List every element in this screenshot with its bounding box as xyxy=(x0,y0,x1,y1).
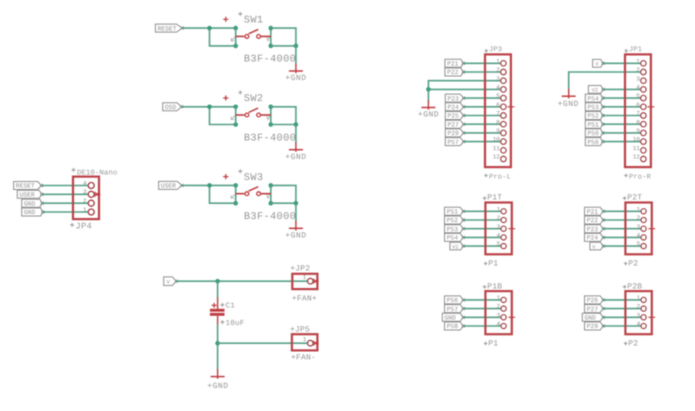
svg-text:3: 3 xyxy=(83,189,87,196)
net flag P53 at P1T pin 3 xyxy=(445,225,465,233)
svg-text:GND: GND xyxy=(24,200,36,207)
wire P1T pin 3 to P53 xyxy=(463,228,500,230)
svg-text:1: 1 xyxy=(637,295,641,302)
wire SW2 right pins tie xyxy=(270,107,272,125)
svg-text:P27: P27 xyxy=(587,306,599,313)
svg-text:4: 4 xyxy=(637,321,641,328)
power flag V (fan supply) xyxy=(164,277,178,286)
svg-text:4: 4 xyxy=(497,321,501,328)
svg-text:4: 4 xyxy=(497,232,501,239)
net flag GND at JP4 pin 2 xyxy=(22,199,44,207)
svg-text:5: 5 xyxy=(496,93,500,100)
net flag USER xyxy=(159,181,184,189)
svg-text:P21: P21 xyxy=(587,209,599,216)
pin numbers JP1 1-12 xyxy=(633,58,641,161)
wire SW2 right loop bottom xyxy=(271,124,296,126)
origin cross JP3 (red) xyxy=(508,103,515,110)
svg-text:P2: P2 xyxy=(628,260,638,269)
svg-text:P58: P58 xyxy=(447,323,459,330)
net flag P58 at P1B pin 4 xyxy=(445,322,465,330)
junction SW1 pin 2 xyxy=(269,26,274,31)
label JP3 xyxy=(489,46,502,54)
svg-text:12: 12 xyxy=(633,154,641,161)
svg-text:+JP5: +JP5 xyxy=(290,326,310,335)
origin cross C1 text xyxy=(220,303,224,307)
wire SW3 right pins tie xyxy=(270,185,272,203)
net flag P52 at P1T pin 2 xyxy=(445,216,465,224)
wire JP1 pin 8 to P51 xyxy=(603,123,640,125)
net flag P29 at P2B pin 4 xyxy=(585,322,605,330)
svg-text:RESET: RESET xyxy=(158,25,177,32)
svg-text:3: 3 xyxy=(637,223,641,230)
wire net USER to SW3 top pins xyxy=(182,184,236,186)
net flag USER at JP4 pin 3 xyxy=(17,190,43,198)
label C1 xyxy=(226,302,236,311)
wire SW2 to ground xyxy=(295,125,297,143)
value B3F-4000 of SW1 xyxy=(244,54,296,66)
label SW2 xyxy=(244,93,264,105)
junction C1 / FAN- xyxy=(215,341,220,346)
svg-text:1: 1 xyxy=(303,274,307,281)
wire P2T pin 1 to P21 xyxy=(603,210,640,212)
wire JP3 pin 9 to P29 xyxy=(464,132,501,134)
svg-text:3: 3 xyxy=(497,223,501,230)
svg-text:+GND: +GND xyxy=(285,74,306,83)
pin numbers P2T xyxy=(637,206,641,248)
wire SW1 right loop bottom xyxy=(271,45,296,47)
wire SW3 right loop top xyxy=(271,185,296,203)
svg-text:RESET: RESET xyxy=(16,183,35,190)
origin cross P1T text xyxy=(483,196,487,200)
wire P2B pin 3 to GND xyxy=(603,316,640,318)
pin numbers P1T xyxy=(497,206,501,248)
svg-text:4: 4 xyxy=(496,84,500,91)
pin numbers P1B xyxy=(497,295,501,328)
svg-text:GND: GND xyxy=(585,315,597,322)
wire net RESET loop to SW1 bottom pin xyxy=(210,28,236,46)
origin cross P1B text xyxy=(483,285,487,289)
origin cross DE10-Nano text xyxy=(72,168,76,172)
wire JP1 pin 7 to P52 xyxy=(603,115,640,117)
wire P1T pin 4 to P54 xyxy=(463,236,500,238)
wire JP1 pin 9 to P50 xyxy=(603,132,640,134)
svg-text:12: 12 xyxy=(493,154,501,161)
wire P1T pin 1 to P51 xyxy=(463,210,500,212)
svg-text:OSD: OSD xyxy=(165,104,177,111)
net flag P24 at JP3 pin 6 xyxy=(445,103,465,111)
value P1 of P1B xyxy=(488,340,498,349)
svg-text:P25: P25 xyxy=(448,113,460,120)
svg-text:P54: P54 xyxy=(588,95,600,102)
svg-text:P53: P53 xyxy=(588,104,600,111)
wire SW2 left pins tie xyxy=(235,107,237,125)
ground GND left of JP3 xyxy=(418,100,439,120)
ground GND below SW1 xyxy=(285,64,306,84)
connector JP2 FAN+ xyxy=(292,274,318,289)
label FAN- xyxy=(291,354,316,363)
svg-text:1: 1 xyxy=(496,58,500,65)
junction SW2 pin 1 xyxy=(233,105,238,110)
origin cross 10uF text xyxy=(220,320,224,324)
svg-text:3: 3 xyxy=(637,312,641,319)
wire P1T pin 2 to P52 xyxy=(463,219,500,221)
wire net OSD to SW2 top pins xyxy=(182,106,236,108)
net flag P23 at P2T pin 3 xyxy=(585,225,605,233)
svg-text:GND: GND xyxy=(24,209,36,216)
connector JP4 DE10-Nano header xyxy=(73,177,99,220)
wire SW3 right loop bottom xyxy=(271,202,296,204)
origin cross SW3 (red) xyxy=(223,174,228,179)
svg-text:7: 7 xyxy=(496,110,500,117)
svg-text:USER: USER xyxy=(161,183,176,190)
svg-text:2: 2 xyxy=(496,67,500,74)
wire JP4 pin 2 to GND xyxy=(42,202,87,204)
junction SW1 pin 1 xyxy=(233,26,238,31)
svg-text:SW2: SW2 xyxy=(244,93,264,105)
svg-text:+GND: +GND xyxy=(207,382,228,391)
svg-text:1: 1 xyxy=(303,336,307,343)
junction SW3 pin 2 xyxy=(269,183,274,188)
svg-text:10: 10 xyxy=(493,136,501,143)
connector P1T header xyxy=(485,203,511,255)
junction SW2 pin 2 xyxy=(269,105,274,110)
svg-text:P1B: P1B xyxy=(487,282,502,291)
svg-text:JP4: JP4 xyxy=(75,222,92,232)
wire JP3 pin 3 to GND xyxy=(428,81,500,90)
svg-text:P52: P52 xyxy=(588,113,600,120)
svg-text:+GND: +GND xyxy=(285,232,306,241)
junction net OSD xyxy=(207,105,212,110)
wire JP3 pin 4 to GND xyxy=(428,88,500,90)
svg-text:P26: P26 xyxy=(587,297,599,304)
net flag P22 at P2T pin 2 xyxy=(585,216,605,224)
svg-text:USER: USER xyxy=(20,192,35,199)
pin numbers P2B xyxy=(637,295,641,328)
label SW3 xyxy=(244,172,264,184)
pin numbers JP3 1-12 xyxy=(493,58,501,161)
svg-text:3: 3 xyxy=(496,75,500,82)
wire P2B pin 4 to P29 xyxy=(603,325,640,327)
svg-text:+GND: +GND xyxy=(285,153,306,162)
net flag P27 at P2B pin 2 xyxy=(585,305,605,313)
wire net RESET to SW1 top pins xyxy=(182,27,236,29)
origin cross SW1 name text xyxy=(238,12,242,16)
svg-text:P51: P51 xyxy=(588,121,600,128)
wire P2T pin 3 to P23 xyxy=(603,228,640,230)
svg-text:3: 3 xyxy=(636,75,640,82)
origin cross Pro-R text xyxy=(624,174,628,178)
svg-text:P1: P1 xyxy=(488,260,498,269)
svg-text:V2: V2 xyxy=(452,244,458,250)
wire JP1 pin 1 to V xyxy=(603,62,640,64)
junction JP3 GND net xyxy=(426,87,431,92)
svg-text:+FAN-: +FAN- xyxy=(291,354,316,363)
label P1B xyxy=(487,282,502,291)
wire SW1 right loop top xyxy=(271,28,296,46)
junction SW2 pin 4 xyxy=(269,122,274,127)
origin cross P2 text xyxy=(624,342,628,346)
net flag P51 at JP1 pin 8 xyxy=(585,120,604,128)
net flag GND at P2B pin 3 xyxy=(582,313,604,321)
wire net USER loop to SW3 bottom pin xyxy=(210,185,236,203)
svg-text:11: 11 xyxy=(493,145,501,152)
power flag V at JP1 pin 1 xyxy=(593,59,605,67)
net flag P21 at JP3 pin 1 xyxy=(445,59,465,67)
wire P2T pin 4 to P24 xyxy=(603,236,640,238)
junction SW2 GND branch xyxy=(294,122,299,127)
junction SW1 GND branch xyxy=(294,44,299,49)
svg-text:P56: P56 xyxy=(588,139,600,146)
svg-text:5: 5 xyxy=(636,93,640,100)
svg-text:P51: P51 xyxy=(447,209,459,216)
wire net OSD loop to SW2 bottom pin xyxy=(210,107,236,125)
net flag P54 at JP1 pin 5 xyxy=(585,94,604,102)
wire JP1 pin 5 to P54 xyxy=(603,97,640,99)
svg-text:B3F-4000: B3F-4000 xyxy=(244,211,296,223)
net flag P53 at JP1 pin 6 xyxy=(585,103,604,111)
svg-text:+GND: +GND xyxy=(558,100,579,109)
origin cross P2B text xyxy=(623,285,627,289)
svg-text:6: 6 xyxy=(636,101,640,108)
svg-text:GND: GND xyxy=(445,315,457,322)
net flag P25 at JP3 pin 7 xyxy=(445,112,465,120)
origin cross P1 text xyxy=(484,342,488,346)
svg-text:P53: P53 xyxy=(447,226,459,233)
label DE10-Nano xyxy=(77,170,117,178)
junction SW3 pin 1 xyxy=(233,183,238,188)
svg-text:+GND: +GND xyxy=(418,111,439,120)
svg-text:B3F-4000: B3F-4000 xyxy=(244,54,296,66)
wire JP3 pin 10 to P57 xyxy=(464,141,501,143)
wire JP3 pin 2 to P22 xyxy=(463,71,500,73)
wire junction to C1 top xyxy=(217,281,219,297)
wire P2B pin 1 to P26 xyxy=(603,299,640,301)
label P2T xyxy=(627,194,642,203)
net flag P52 at JP1 pin 7 xyxy=(585,112,604,120)
svg-text:11: 11 xyxy=(633,145,641,152)
origin cross SW1 (red) xyxy=(223,17,228,22)
svg-text:P22: P22 xyxy=(447,69,459,76)
origin cross Pro-L text xyxy=(484,174,488,178)
wire P2B pin 2 to P27 xyxy=(603,308,640,310)
svg-text:P1: P1 xyxy=(488,340,498,349)
net flag V2 at P1T pin 5 xyxy=(450,242,465,250)
wire SW3 left pins tie xyxy=(235,185,237,203)
svg-text:P2: P2 xyxy=(628,340,638,349)
label SW1 xyxy=(244,15,264,27)
wire JP3 pin 1 to P21 xyxy=(463,62,500,64)
net flag P24 at P2T pin 4 xyxy=(585,233,605,241)
wire P2T pin 2 to P22 xyxy=(603,219,640,221)
svg-text:4: 4 xyxy=(636,84,640,91)
net flag P51 at P1T pin 1 xyxy=(445,207,465,215)
ground GND below C1 xyxy=(207,369,228,391)
label P1T xyxy=(487,194,502,203)
wire SW1 left pins tie xyxy=(235,28,237,46)
net flag GND at P1B pin 3 xyxy=(442,313,464,321)
svg-text:2: 2 xyxy=(637,303,641,310)
origin cross JP4 text xyxy=(70,223,74,227)
origin cross SW2 name text xyxy=(238,91,242,95)
pushbutton switch SW1 xyxy=(236,29,271,38)
svg-text:5: 5 xyxy=(637,241,641,248)
wire SW1 to ground xyxy=(295,46,297,64)
svg-text:1: 1 xyxy=(497,206,501,213)
pushbutton switch SW2 xyxy=(236,108,271,117)
net flag P27 at JP3 pin 8 xyxy=(445,120,465,128)
capacitor C1 (polarized) xyxy=(210,297,225,324)
value 10uF of C1 xyxy=(226,319,245,328)
svg-text:V2: V2 xyxy=(592,88,598,94)
net flag P21 at P2T pin 1 xyxy=(585,207,605,215)
svg-text:P27: P27 xyxy=(448,121,460,128)
ground GND below SW3 xyxy=(285,221,306,241)
svg-text:P54: P54 xyxy=(447,235,459,242)
net flag GND at JP4 pin 1 xyxy=(22,208,45,216)
label P2B xyxy=(627,282,642,291)
svg-text:JP1: JP1 xyxy=(629,46,642,54)
value B3F-4000 of SW3 xyxy=(244,211,296,223)
value P2 of P2B xyxy=(628,340,638,349)
svg-text:9: 9 xyxy=(496,128,500,135)
svg-text:7: 7 xyxy=(636,110,640,117)
wire GND net to JP5 FAN- xyxy=(218,342,307,344)
svg-text:4: 4 xyxy=(83,180,87,187)
net flag P57 at P1B pin 2 xyxy=(445,305,465,313)
svg-text:P57: P57 xyxy=(447,306,459,313)
svg-text:B3F-4000: B3F-4000 xyxy=(244,132,296,144)
junction SW3 GND branch xyxy=(294,201,299,206)
svg-text:+JP2: +JP2 xyxy=(290,264,310,273)
svg-text:P1T: P1T xyxy=(487,194,502,203)
connector JP3 12-pin header xyxy=(485,54,511,167)
svg-text:P24: P24 xyxy=(587,235,599,242)
net flag P57 at JP3 pin 10 xyxy=(445,138,465,146)
svg-text:DE10-Nano: DE10-Nano xyxy=(77,170,117,178)
svg-text:P29: P29 xyxy=(448,130,460,137)
svg-text:9: 9 xyxy=(636,128,640,135)
origin cross P2B (red) xyxy=(648,314,655,321)
net flag RESET xyxy=(155,24,183,32)
wire P1B pin 4 to P58 xyxy=(463,325,500,327)
svg-text:4: 4 xyxy=(637,232,641,239)
svg-text:1: 1 xyxy=(636,58,640,65)
svg-text:P57: P57 xyxy=(448,139,460,146)
wire SW2 right loop top xyxy=(271,107,296,125)
svg-text:3: 3 xyxy=(497,312,501,319)
svg-text:P22: P22 xyxy=(587,217,599,224)
wire P1B pin 3 to GND xyxy=(463,316,500,318)
connector P2B header xyxy=(625,291,651,334)
wire JP4 pin 1 to GND xyxy=(43,211,88,213)
svg-text:SW3: SW3 xyxy=(244,172,264,184)
wire JP3 pin 7 to P25 xyxy=(464,115,501,117)
wire C1 bottom to GND net xyxy=(217,325,219,369)
net flag V at P2T pin 5 xyxy=(590,242,605,250)
connector JP1 12-pin header xyxy=(625,54,651,167)
svg-text:+FAN+: +FAN+ xyxy=(292,294,317,303)
wire SW1 right pins tie xyxy=(270,28,272,46)
junction net USER xyxy=(207,183,212,188)
connector P2T header xyxy=(625,203,651,255)
svg-text:1: 1 xyxy=(637,206,641,213)
value Pro-L of JP3 xyxy=(489,174,511,182)
label JP2 xyxy=(290,264,310,273)
pin marks SW3 xyxy=(231,195,269,199)
junction SW3 pin 3 xyxy=(233,201,238,206)
svg-text:P23: P23 xyxy=(587,226,599,233)
wire P1B pin 1 to P56 xyxy=(463,299,500,301)
svg-text:Pro-L: Pro-L xyxy=(489,174,511,182)
origin cross P1T (red) xyxy=(508,225,515,232)
ground GND below SW2 xyxy=(285,142,306,162)
svg-text:P23: P23 xyxy=(448,95,460,102)
svg-text:8: 8 xyxy=(636,119,640,126)
svg-text:P2T: P2T xyxy=(627,194,642,203)
net flag P56 at P1B pin 1 xyxy=(445,296,465,304)
ground GND left of JP1 xyxy=(558,89,579,109)
origin cross JP3 text xyxy=(484,49,488,53)
svg-text:P24: P24 xyxy=(448,104,460,111)
origin cross P1B (red) xyxy=(508,314,515,321)
wire P1B pin 2 to P57 xyxy=(463,308,500,310)
pin number 1 JP5 xyxy=(303,336,307,343)
svg-text:2: 2 xyxy=(637,215,641,222)
svg-text:10: 10 xyxy=(633,136,641,143)
svg-text:1: 1 xyxy=(497,295,501,302)
svg-text:2: 2 xyxy=(497,303,501,310)
wire JP1 pin 6 to P53 xyxy=(603,106,640,108)
label FAN+ xyxy=(292,294,317,303)
svg-text:5: 5 xyxy=(497,241,501,248)
label JP5 xyxy=(290,326,310,335)
svg-text:2: 2 xyxy=(497,215,501,222)
wire JP1 pin 2 to GND xyxy=(569,72,641,89)
origin star JP4 (red) xyxy=(93,192,100,197)
value P1 of P1T xyxy=(488,260,498,269)
value P2 of P2T xyxy=(628,260,638,269)
origin cross P2 text xyxy=(624,262,628,266)
net flag OSD xyxy=(163,103,183,111)
origin cross P1 text xyxy=(484,262,488,266)
wire JP4 pin 4 to RESET xyxy=(41,185,87,187)
wire JP3 pin 5 to P23 xyxy=(464,97,501,99)
wire SW3 to ground xyxy=(295,203,297,221)
pin numbers JP4 xyxy=(83,180,87,214)
svg-text:6: 6 xyxy=(496,101,500,108)
svg-text:Pro-R: Pro-R xyxy=(629,174,652,182)
value B3F-4000 of SW2 xyxy=(244,132,296,144)
net flag P23 at JP3 pin 5 xyxy=(445,94,465,102)
svg-text:2: 2 xyxy=(636,67,640,74)
svg-text:P2B: P2B xyxy=(627,282,642,291)
label JP1 xyxy=(629,46,642,54)
wire JP1 pin 10 to P56 xyxy=(603,141,640,143)
origin cross SW3 name text xyxy=(238,169,242,173)
net flag RESET at JP4 pin 4 xyxy=(14,182,43,190)
junction SW2 pin 3 xyxy=(233,122,238,127)
svg-text:P29: P29 xyxy=(587,323,599,330)
net flag P56 at JP1 pin 10 xyxy=(585,138,604,146)
pin number 1 JP2 xyxy=(303,274,307,281)
wire JP1 pin 4 to V2 xyxy=(603,88,640,90)
net flag P54 at P1T pin 4 xyxy=(445,233,465,241)
junction SW1 pin 4 xyxy=(269,44,274,49)
wire JP3 pin 6 to P24 xyxy=(464,106,501,108)
wire JP3 pin 8 to P27 xyxy=(464,123,501,125)
junction V supply / C1 xyxy=(215,279,220,284)
svg-text:2: 2 xyxy=(83,198,87,205)
